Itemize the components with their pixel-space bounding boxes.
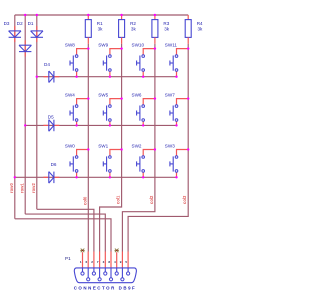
svg-text:SW2: SW2	[132, 143, 142, 148]
svg-text:R2: R2	[130, 21, 136, 26]
wire net col1 vertical	[100, 44, 122, 252]
svg-text:P1: P1	[65, 256, 71, 261]
svg-text:SW1: SW1	[98, 143, 108, 148]
connector pins	[83, 252, 129, 268]
svg-text:4: 4	[114, 260, 116, 264]
svg-text:R3: R3	[163, 21, 169, 26]
wire net row1 vertical left	[24, 15, 26, 214]
wire net col0 vertical	[87, 44, 89, 252]
svg-text:SW4: SW4	[65, 92, 75, 97]
svg-text:row0: row0	[9, 183, 14, 193]
switch SW6	[132, 92, 155, 125]
connector holes top row	[81, 268, 130, 275]
no-connect X pin 1	[80, 249, 84, 253]
switch SW1	[98, 143, 121, 177]
svg-text:3k: 3k	[131, 27, 137, 32]
svg-text:D6: D6	[51, 162, 57, 167]
svg-text:CONNECTOR DB9F: CONNECTOR DB9F	[74, 285, 137, 290]
svg-text:5: 5	[125, 260, 127, 264]
svg-text:3k: 3k	[198, 27, 204, 32]
svg-text:col3: col3	[182, 195, 187, 204]
switch SW8	[65, 42, 88, 76]
diode D6	[43, 162, 59, 183]
svg-text:8: 8	[108, 260, 110, 264]
svg-text:SW8: SW8	[65, 42, 75, 47]
svg-text:R1: R1	[97, 21, 103, 26]
switch SW4	[65, 92, 88, 125]
wire matrix row line 1	[37, 76, 177, 78]
svg-text:D2: D2	[17, 21, 23, 26]
svg-text:SW7: SW7	[165, 92, 175, 97]
svg-text:SW9: SW9	[98, 42, 108, 47]
switch SW3	[165, 143, 188, 177]
svg-text:2: 2	[91, 260, 93, 264]
connector shell	[74, 268, 136, 283]
wire net row2 vertical left	[36, 15, 38, 209]
junction dots switch branches	[87, 47, 189, 150]
svg-text:SW0: SW0	[65, 143, 75, 148]
switch SW10	[132, 42, 155, 76]
switch SW7	[165, 92, 188, 125]
no-connect X pin 4	[115, 249, 119, 253]
svg-text:D1: D1	[28, 21, 34, 26]
wire net row0 vertical left	[14, 15, 16, 219]
wire top rail	[15, 14, 188, 16]
svg-text:col2: col2	[149, 195, 154, 204]
svg-text:3: 3	[103, 260, 105, 264]
wire net row2 route to pin	[37, 209, 94, 251]
svg-text:SW3: SW3	[165, 143, 175, 148]
wire net row0 route to pin	[15, 219, 111, 252]
svg-text:SW10: SW10	[132, 42, 145, 47]
svg-text:7: 7	[97, 260, 99, 264]
svg-text:col1: col1	[116, 195, 121, 204]
svg-text:col0: col0	[82, 196, 87, 205]
svg-text:row1: row1	[19, 183, 24, 193]
connector holes bottom row	[87, 268, 124, 281]
wire net row1 route to pin	[25, 214, 105, 251]
svg-text:9: 9	[120, 260, 122, 264]
svg-text:D5: D5	[48, 114, 54, 119]
svg-text:D3: D3	[4, 21, 10, 26]
resistor R3	[152, 15, 170, 44]
wire matrix row line 3	[15, 176, 177, 178]
diode D2	[17, 21, 32, 56]
svg-text:3k: 3k	[98, 27, 104, 32]
svg-text:D4: D4	[44, 62, 50, 67]
junction dots top rail	[24, 14, 156, 16]
svg-text:6: 6	[86, 260, 88, 264]
connector pin numbers	[80, 260, 128, 264]
resistor R4	[185, 15, 203, 44]
diode D4	[43, 62, 59, 83]
diode D5	[43, 114, 59, 131]
svg-text:SW11: SW11	[165, 42, 178, 47]
switch SW11	[165, 42, 188, 76]
resistor R1	[85, 15, 103, 44]
junction dots switch bottoms	[75, 76, 177, 179]
diode D1	[28, 21, 43, 42]
switch SW0	[65, 143, 88, 177]
svg-text:R4: R4	[197, 21, 203, 26]
diode D3	[4, 21, 21, 42]
wire net col2 vertical	[122, 44, 154, 252]
wire matrix row line 2	[25, 124, 176, 126]
resistor R2	[119, 15, 137, 44]
svg-text:SW6: SW6	[132, 92, 142, 97]
switch SW2	[132, 143, 155, 177]
switch SW9	[98, 42, 121, 76]
svg-text:1: 1	[80, 260, 82, 264]
wire net col3 vertical	[128, 44, 188, 252]
junction dots row line taps	[14, 76, 38, 179]
svg-text:row2: row2	[31, 183, 36, 193]
svg-text:SW5: SW5	[98, 92, 108, 97]
switch SW5	[98, 92, 121, 125]
svg-text:3k: 3k	[164, 27, 170, 32]
